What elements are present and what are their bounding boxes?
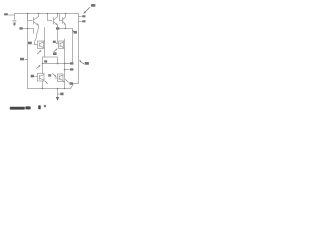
- wire mid bus y63: [43, 63, 73, 65]
- pins top right: [79, 17, 82, 22]
- box transistor U2: [59, 41, 64, 48]
- wire mid-left horizontal y28.5: [23, 29, 34, 34]
- label 30 stub: [44, 60, 47, 62]
- label 28: [53, 52, 57, 55]
- label 24b: [28, 42, 32, 45]
- taps right middle: [65, 64, 70, 70]
- wire top bus: [15, 13, 79, 15]
- node IN lead: [9, 14, 15, 16]
- wire mid-right horizontal y28.5: [60, 25, 73, 64]
- pin blob A: [82, 15, 85, 17]
- wire Q2 emitter to Q4: [56, 25, 58, 43]
- transistor Q2: [48, 14, 58, 26]
- label U3 base: [31, 75, 34, 78]
- transistor Q1: [28, 14, 39, 26]
- wire bottom bus: [28, 88, 71, 90]
- junction dots: [27, 13, 67, 90]
- wire Q5 emitter stub: [42, 81, 44, 89]
- label 14 right rail: [72, 30, 75, 34]
- arrows and labels (dark marks): [4, 4, 95, 95]
- label 26 left of right y28.5: [56, 27, 59, 29]
- label U4: [48, 74, 51, 76]
- pin blob B: [82, 20, 85, 22]
- arrow to U2 emitter: [54, 49, 57, 52]
- label IN: [4, 13, 8, 15]
- arrow 16 right rail: [80, 61, 84, 64]
- label 18 ground: [60, 93, 63, 96]
- arrow to U3 emitter low: [45, 81, 48, 84]
- wire right rail: [71, 14, 79, 89]
- label 10: [91, 4, 96, 7]
- box transistor U3: [38, 74, 45, 82]
- wire y57 link: [43, 57, 58, 64]
- box transistor U4: [58, 74, 64, 82]
- arrow label bottom right: [65, 79, 68, 82]
- label near Q4 base: [53, 41, 56, 43]
- arrow to U1 emitter: [37, 51, 41, 54]
- box transistor U1: [38, 41, 44, 48]
- FIG caption: [10, 105, 46, 110]
- arrow to U3: [36, 66, 39, 69]
- arrow to U4: [52, 73, 55, 76]
- label 22: [20, 58, 24, 61]
- ground symbol: [56, 97, 59, 101]
- transistor Q3b (third top): [60, 14, 66, 25]
- wire left rail: [27, 14, 29, 89]
- wire Q1 emitter to Q3: [35, 26, 39, 45]
- wire Q5 collector stub: [42, 57, 44, 74]
- tap blob y69: [70, 68, 73, 70]
- arrow 10 top right: [84, 7, 90, 13]
- tap blob y63: [70, 62, 73, 64]
- wire Q6 emitter diagonal: [63, 81, 65, 83]
- ground input arrow: [13, 24, 16, 26]
- capacitor C1: [13, 14, 17, 24]
- label 24 left of y28.5: [19, 27, 22, 29]
- wire ground stem: [58, 89, 60, 98]
